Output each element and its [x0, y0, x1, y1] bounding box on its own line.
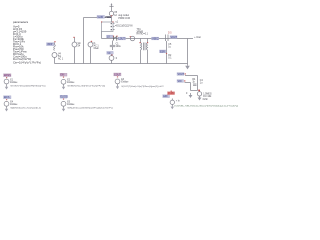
net label boxes [47, 15, 185, 98]
bottom subcircuits [4, 73, 239, 112]
net label [170, 36, 177, 39]
svg-text:1u: 1u [168, 47, 171, 49]
op-amp U1 box [102, 22, 114, 32]
svg-text:V5: V5 [114, 12, 118, 14]
svg-text:EValue: EValue [67, 104, 75, 106]
current source I1 [88, 42, 93, 47]
wire cluster right [185, 75, 198, 77]
net label [177, 80, 184, 83]
svg-text:V(IN)-I(Vloss)-(V(Vd)*I(out)*F: V(IN)-I(Vloss)-(V(Vd)*I(out)*Fsw)/(2u*pi… [67, 107, 113, 110]
svg-text:RATIO=0.1: RATIO=0.1 [137, 33, 149, 36]
evalue E1 [4, 74, 47, 90]
svg-text:LOUT: LOUT [119, 39, 126, 41]
svg-text:24: 24 [78, 45, 81, 47]
svg-text:parameters: parameters [13, 20, 29, 24]
svg-text:EValue: EValue [10, 104, 18, 106]
svg-text:u1: u1 [116, 22, 119, 24]
svg-text:1u: 1u [200, 83, 203, 85]
net label [107, 51, 113, 54]
evalue E2 [60, 73, 105, 89]
svg-text:EValue: EValue [121, 82, 129, 84]
svg-text:D 5: D 5 [168, 32, 172, 34]
svg-text:PARM: PARM [168, 92, 175, 95]
svg-text:=DC(1)/DC(2)*IN: =DC(1)/DC(2)*IN [115, 25, 133, 27]
wire [101, 32, 103, 39]
red pin ticks [54, 15, 186, 81]
svg-text:V(VIN)*I(Vin)+V(3)*I(Vs)*Tsw/(: V(VIN)*I(Vin)+V(3)*I(Vs)*Tsw/(2*Fs*Lb) [67, 85, 105, 87]
inductor L3 [54, 43, 56, 51]
small gray annotations [58, 12, 212, 101]
svg-text:VRIP: VRIP [47, 44, 53, 46]
evalue E3 [114, 73, 165, 89]
wire [74, 38, 76, 43]
svg-text:+ Vout: + Vout [194, 36, 201, 39]
svg-text:12: 12 [114, 15, 117, 17]
voltage source V4 [52, 53, 57, 58]
svg-text:EValue: EValue [10, 82, 18, 84]
ground [187, 64, 189, 66]
evalue E5 [60, 95, 113, 111]
svg-text:0Vdc: 0Vdc [203, 99, 209, 101]
net label [163, 95, 170, 98]
svg-text:V(OUT)*I(Vout)+V(in)*I(Vloss)/: V(OUT)*I(Vout)+V(in)*I(Vloss)/(pwr(2))+I… [121, 85, 164, 88]
svg-text:VC: VC [107, 53, 111, 55]
ground [185, 66, 190, 70]
svg-text:0: 0 [116, 58, 118, 60]
svg-text:0.1: 0.1 [168, 58, 172, 60]
voltage source V1 [72, 42, 77, 47]
red junction [198, 90, 200, 92]
svg-text:V(VOUT)*I(Vout)/(V(VIN)*I(Vin): V(VOUT)*I(Vout)/(V(VIN)*I(Vin))*Tsw [10, 84, 46, 87]
wire [111, 16, 113, 22]
svg-text:0Adc: 0Adc [94, 47, 100, 50]
wire [54, 58, 56, 64]
voltage source V2 [109, 56, 114, 61]
svg-text:VIN: VIN [178, 81, 182, 83]
ground [198, 98, 202, 101]
grounds (filled) [185, 66, 201, 101]
net label [177, 73, 184, 76]
svg-text:ERMS: ERMS [4, 75, 11, 77]
net label VIN [47, 43, 55, 46]
svg-text:VOUT: VOUT [171, 37, 178, 39]
wire [90, 47, 92, 64]
net label [160, 50, 167, 53]
net label GAIN [97, 15, 105, 18]
svg-text:GAIN: GAIN [98, 16, 104, 19]
capacitor C2 series [165, 35, 167, 42]
svg-text:AC 1: AC 1 [94, 45, 100, 48]
svg-text:1k: 1k [192, 82, 195, 84]
svg-text:EDIS: EDIS [4, 97, 10, 99]
wire [83, 18, 85, 64]
net label [118, 37, 126, 40]
svg-text:0: 0 [186, 93, 188, 95]
ammeter probe [130, 36, 134, 40]
svg-text:AC 1: AC 1 [58, 58, 64, 61]
net label [152, 37, 159, 40]
svg-text:PWM CCM: PWM CCM [118, 18, 130, 20]
switch glyphs on wire [114, 37, 117, 41]
svg-text:LX: LX [107, 37, 110, 39]
svg-text:avg model: avg model [118, 15, 129, 17]
capacitor C6 [193, 83, 197, 85]
wire [84, 17, 112, 19]
svg-text:FC=10k: FC=10k [203, 96, 212, 98]
capacitor C3 [112, 41, 114, 45]
svg-text:ELOSS: ELOSS [61, 97, 69, 99]
ground rail [55, 63, 188, 65]
wire [166, 41, 168, 64]
svg-text:EOUT: EOUT [114, 74, 121, 76]
svg-text:VOUT: VOUT [178, 74, 185, 76]
svg-text:+ In: + In [176, 101, 181, 103]
svg-text:V=V(%IN+,%IN-)*I(Vout)+V(loss): V=V(%IN+,%IN-)*I(Vout)+V(loss)*I(Vin)*li… [174, 105, 238, 108]
svg-text:PWM: PWM [105, 17, 111, 19]
evalue E6 [168, 91, 239, 110]
evalue E4 [4, 96, 41, 112]
svg-text:EValue: EValue [67, 82, 75, 84]
voltage source V5 [109, 11, 113, 15]
wire [74, 47, 76, 64]
svg-text:Cin=1/(4*p*p*L*Fs*Fs): Cin=1/(4*p*p*L*Fs*Fs) [13, 60, 41, 64]
wire [111, 4, 113, 11]
parameters text block [13, 20, 41, 64]
node A power bar [109, 5, 113, 7]
svg-text:EIN: EIN [61, 75, 65, 77]
svg-text:ESR: ESR [160, 51, 165, 53]
transformer TX1 [140, 39, 142, 43]
svg-text:VSEC: VSEC [152, 39, 159, 41]
svg-text:EFF: EFF [163, 96, 168, 98]
ground [189, 95, 193, 98]
wire [102, 38, 194, 40]
net label [107, 35, 113, 38]
svg-text:100u: 100u [116, 46, 122, 48]
svg-text:V(A)*I(Vdiss)*(1+Tsw)*pwr(D,2): V(A)*I(Vdiss)*(1+Tsw)*pwr(D,2) [10, 107, 41, 110]
voltage source V6 [197, 92, 201, 96]
wire [187, 39, 189, 64]
